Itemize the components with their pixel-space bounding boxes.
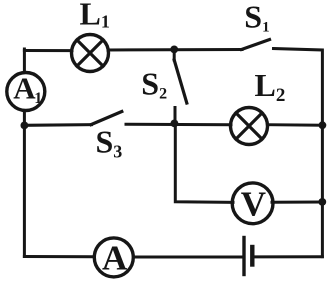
- wire V branch vertical and horizontal to V: [175, 124, 233, 203]
- wire bottom-left corner to ammeter A: [24, 255, 94, 258]
- switch S2 blade: [174, 60, 187, 103]
- svg-text:V: V: [241, 184, 266, 223]
- wire left rail lower (A1 to bottom-left corner): [23, 111, 26, 257]
- wire middle left (junction to S3): [24, 123, 91, 127]
- wire S1 right contact to top-right corner and right rail down: [274, 49, 323, 257]
- svg-text:L1: L1: [80, 0, 110, 32]
- lamp L1: [72, 35, 109, 72]
- node junction left (A1/S3/left rail): [21, 122, 29, 130]
- wire V to right rail: [272, 201, 322, 204]
- wire left rail upper (corner to A1): [23, 49, 26, 73]
- wire L2 to right rail: [268, 123, 323, 127]
- svg-text:L2: L2: [255, 67, 286, 106]
- wire ammeter A to battery: [134, 256, 244, 259]
- ammeter A1 circle: [7, 73, 45, 111]
- wire S3 right contact to middle junction to L2: [126, 123, 231, 127]
- svg-text:S1: S1: [244, 0, 269, 36]
- wire top-left horizontal to L1: [24, 49, 72, 52]
- node junction right rail upper (L2): [319, 121, 327, 129]
- svg-text:S2: S2: [141, 65, 167, 102]
- wire L1 to S1 left contact: [108, 48, 242, 52]
- battery short plate (negative): [250, 247, 254, 265]
- node junction middle (S2/S3/L2/V): [171, 120, 179, 128]
- svg-text:S3: S3: [96, 123, 123, 161]
- switch S2 upper stub: [173, 50, 176, 61]
- node junction right rail lower (V): [318, 198, 326, 206]
- switch S3 blade: [91, 112, 122, 125]
- battery long plate (positive): [242, 238, 245, 275]
- wire battery to bottom-right corner: [253, 255, 322, 258]
- switch S1 blade: [242, 40, 270, 50]
- svg-text:A: A: [102, 238, 128, 277]
- voltmeter V circle: [232, 183, 273, 224]
- node junction top (S1/S2/L1): [170, 46, 178, 54]
- switch S2 lower stub: [174, 108, 177, 120]
- lamp L2: [231, 108, 268, 145]
- ammeter A circle: [94, 238, 133, 277]
